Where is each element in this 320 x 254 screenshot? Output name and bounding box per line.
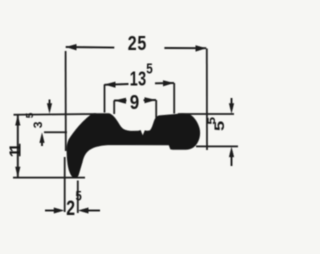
dim 2.5: left extension line xyxy=(64,157,66,212)
dim 3.5: upper arrow pointing down to line A xyxy=(49,100,51,108)
svg-text:5: 5 xyxy=(146,60,152,77)
svg-text:5: 5 xyxy=(76,189,82,204)
dim 13.5: dimension line (with gap for label) xyxy=(104,83,174,85)
dim 13.5: left arrowhead xyxy=(104,82,115,88)
dim 13.5: right arrowhead xyxy=(163,80,174,86)
svg-text:13: 13 xyxy=(130,67,147,90)
svg-text:5: 5 xyxy=(205,117,217,125)
dim 25: left arrowhead xyxy=(66,44,77,50)
svg-text:5: 5 xyxy=(25,112,36,118)
dim 9: dimension line (with gap for label) xyxy=(114,99,156,102)
dim 9: left arrowhead xyxy=(114,98,126,104)
svg-text:2: 2 xyxy=(66,196,75,220)
dim 9: left extension line xyxy=(113,101,115,115)
dim 2.5: left arrow pointing right xyxy=(45,210,55,212)
dim 25: right arrowhead xyxy=(196,45,207,51)
profile cross-section (black extrusion shape) xyxy=(67,113,200,178)
dim 2.5: right extension line xyxy=(77,181,79,214)
dim 9: right arrowhead xyxy=(145,97,157,103)
dim 13.5: right extension line xyxy=(173,83,175,114)
dim 11: dimension line with inside arrows xyxy=(17,115,19,178)
dim 13.5: left extension line xyxy=(104,85,106,113)
line A: top reference extension line (left) xyxy=(14,113,97,116)
line A2: right top reference extension line xyxy=(178,113,234,115)
dim 5.5: lower arrow pointing up to line D xyxy=(231,152,233,166)
dim 3.5: lower arrow pointing up to line B xyxy=(41,140,43,147)
svg-text:25: 25 xyxy=(128,33,147,55)
svg-text:3: 3 xyxy=(31,121,45,128)
line C: bottom reference extension line (left) xyxy=(13,177,85,179)
dim 25: right extension line xyxy=(206,49,208,151)
dim 5.5: upper arrow pointing down to line A2 xyxy=(231,98,233,107)
dim 25: dimension line (with gap for label) xyxy=(66,47,207,48)
dim 9: right extension line xyxy=(155,100,157,118)
line D: right bottom reference extension line xyxy=(196,145,238,147)
line B: web-top reference extension line (left) xyxy=(44,131,67,133)
svg-text:9: 9 xyxy=(130,90,139,113)
dim 25: left extension line xyxy=(65,51,67,151)
dim 2.5: right arrow pointing left xyxy=(88,210,100,212)
